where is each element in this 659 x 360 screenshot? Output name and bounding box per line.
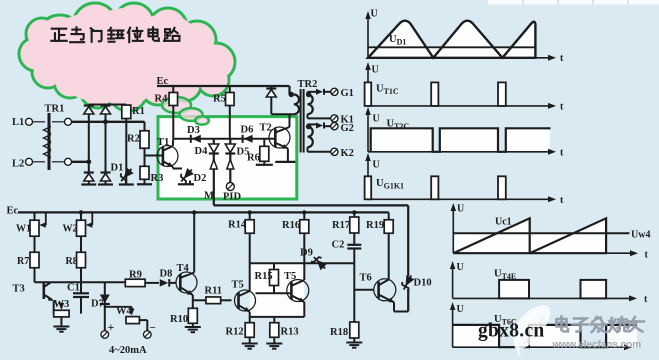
- svg-text:R8: R8: [66, 256, 78, 267]
- svg-text:T5: T5: [284, 271, 296, 282]
- svg-text:G2: G2: [341, 123, 354, 134]
- svg-text:www.elecfans.com: www.elecfans.com: [552, 340, 642, 351]
- svg-text:L1: L1: [12, 117, 24, 128]
- svg-text:L2: L2: [12, 159, 24, 170]
- svg-text:R17: R17: [332, 220, 350, 231]
- svg-text:+: +: [108, 320, 115, 334]
- svg-text:PID: PID: [223, 192, 242, 203]
- svg-text:D9: D9: [300, 248, 313, 259]
- svg-text:R5: R5: [213, 94, 226, 105]
- svg-text:R4: R4: [155, 94, 169, 105]
- svg-text:U: U: [373, 114, 380, 125]
- svg-text:W4: W4: [116, 306, 133, 317]
- svg-text:C1: C1: [67, 283, 80, 294]
- svg-text:4~20mA: 4~20mA: [109, 345, 147, 356]
- svg-text:T1: T1: [157, 137, 169, 148]
- svg-text:gbx8.cn: gbx8.cn: [478, 321, 545, 342]
- svg-text:R1: R1: [132, 106, 145, 117]
- svg-text:T3: T3: [13, 284, 25, 295]
- svg-text:R9: R9: [129, 270, 142, 281]
- svg-text:R19: R19: [366, 220, 384, 231]
- svg-text:W3: W3: [54, 299, 70, 310]
- svg-text:D8: D8: [160, 269, 173, 280]
- svg-text:D7: D7: [91, 298, 104, 309]
- svg-text:D2: D2: [194, 173, 207, 184]
- svg-text:M: M: [204, 191, 214, 202]
- svg-text:T2: T2: [260, 123, 272, 134]
- svg-text:R12: R12: [226, 327, 244, 338]
- svg-text:Uw4: Uw4: [631, 230, 650, 241]
- svg-text:D1: D1: [111, 163, 124, 174]
- svg-text:U: U: [457, 204, 464, 215]
- svg-text:Ec: Ec: [7, 206, 19, 217]
- svg-text:U: U: [457, 304, 464, 315]
- svg-text:U: U: [371, 9, 378, 20]
- svg-text:R3: R3: [151, 173, 164, 184]
- svg-text:K2: K2: [341, 148, 354, 159]
- svg-text:R18: R18: [330, 327, 348, 338]
- svg-text:−: −: [150, 322, 156, 334]
- svg-text:W2: W2: [63, 224, 78, 235]
- svg-text:D3: D3: [187, 125, 200, 136]
- svg-text:U: U: [372, 65, 379, 76]
- svg-text:R13: R13: [281, 327, 299, 338]
- svg-text:U: U: [457, 262, 464, 273]
- svg-text:R7: R7: [17, 256, 29, 267]
- svg-text:TR1: TR1: [45, 104, 65, 115]
- svg-text:D4: D4: [195, 146, 209, 157]
- svg-text:T4: T4: [177, 263, 190, 274]
- svg-text:R11: R11: [205, 286, 223, 297]
- svg-text:C2: C2: [332, 240, 345, 251]
- svg-text:W1: W1: [16, 224, 31, 235]
- svg-text:R16: R16: [282, 220, 300, 231]
- svg-text:Uc1: Uc1: [495, 217, 512, 228]
- svg-text:R6: R6: [247, 153, 260, 164]
- svg-text:D10: D10: [414, 278, 432, 289]
- svg-text:D6: D6: [241, 125, 254, 136]
- svg-text:T6: T6: [360, 273, 372, 284]
- svg-text:R10: R10: [170, 314, 188, 325]
- svg-text:TR2: TR2: [298, 79, 318, 90]
- svg-text:T5: T5: [232, 280, 244, 291]
- svg-text:U: U: [373, 160, 380, 171]
- svg-text:G1: G1: [341, 88, 354, 99]
- svg-text:R14: R14: [228, 220, 247, 231]
- svg-text:R15: R15: [255, 271, 273, 282]
- svg-text:R2: R2: [127, 134, 140, 145]
